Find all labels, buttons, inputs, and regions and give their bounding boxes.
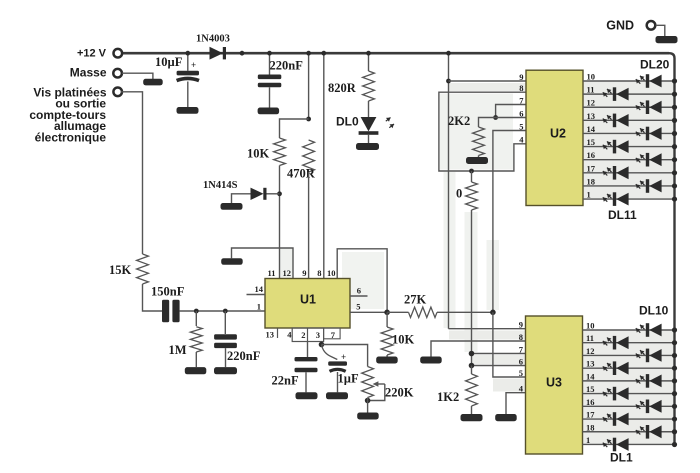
U1 bottom pin boxes [292, 328, 323, 342]
LED row U3 pin 13 [583, 367, 675, 369]
wire node to 1uF [322, 345, 338, 360]
ground Masse [143, 79, 163, 86]
wire U2 pin7 [496, 105, 526, 118]
svg-text:15: 15 [587, 137, 596, 147]
svg-text:10K: 10K [247, 147, 270, 161]
wire 1uF to ground [337, 372, 339, 392]
U1 pin 6 stub [350, 295, 368, 297]
wire GND terminal [656, 25, 665, 36]
node 220nF-2 [223, 309, 228, 314]
wire node to 220K [322, 345, 368, 367]
input terminal [113, 88, 122, 97]
svg-text:15K: 15K [109, 263, 132, 277]
svg-text:14: 14 [587, 124, 596, 134]
wire 220K to ground [367, 398, 369, 413]
svg-text:9: 9 [302, 268, 306, 278]
svg-text:1µF: 1µF [338, 372, 359, 386]
LED DL0 [368, 101, 370, 117]
shading behind U2 LED array [583, 81, 675, 200]
LED row U3 pin 18 [583, 431, 675, 433]
wire U1 pin5 to node [350, 311, 387, 313]
svg-text:16: 16 [587, 150, 596, 160]
LED row U2 pin 15 [583, 146, 675, 148]
svg-text:27K: 27K [404, 293, 427, 307]
ground 10K-2 [376, 357, 398, 364]
svg-text:11: 11 [587, 85, 595, 95]
resistor 470R [303, 140, 315, 172]
node 1M [194, 309, 199, 314]
wire U2 pin6 to 2K2 [479, 118, 527, 128]
wire U2 pin5 down line C [493, 131, 526, 313]
svg-text:5: 5 [519, 121, 523, 131]
op-amp U1 (LM2917) [265, 279, 350, 329]
svg-text:10: 10 [586, 321, 595, 331]
resistor 0 [471, 171, 473, 182]
resistor 27K [387, 311, 408, 313]
wire 1M to ground [195, 352, 197, 367]
svg-text:1: 1 [586, 435, 590, 445]
LED row U2 pin 13 [583, 119, 675, 121]
svg-text:220nF: 220nF [227, 349, 261, 363]
svg-text:470R: 470R [287, 167, 316, 181]
LED row U2 pin 18 [583, 185, 675, 187]
wire 2K2 to ground [478, 156, 480, 158]
svg-text:6: 6 [519, 108, 523, 118]
ground U3 pin4 [495, 414, 517, 421]
U1 pin 13 stub [277, 328, 279, 338]
wire U3 pin7 [472, 353, 526, 355]
svg-text:8: 8 [519, 83, 523, 93]
ground 220nF [258, 108, 280, 115]
right bus wire down to LEDs [669, 53, 675, 445]
svg-text:1N4003: 1N4003 [196, 34, 230, 45]
shading band U2 pins 9-8 [449, 83, 526, 91]
wire 470R to U1 pin9 [308, 172, 310, 279]
capacitor 150nF [162, 300, 169, 322]
wire 10K to diode node [279, 166, 281, 279]
LED row U3 pin 12 [583, 354, 675, 356]
svg-text:5: 5 [519, 368, 523, 378]
wire U3 pin6 [472, 365, 526, 367]
LED row U2 pin 11 [583, 93, 675, 95]
shading behind U3 LED array [583, 330, 675, 445]
op-amp U3 (LM3914) [526, 316, 583, 454]
svg-text:13: 13 [587, 111, 596, 121]
node 27K line C [490, 310, 496, 316]
node line A / U2 pin9 [446, 79, 451, 84]
svg-text:17: 17 [587, 163, 596, 173]
svg-text:12: 12 [587, 98, 596, 108]
shading strip wires above U3 [444, 172, 456, 328]
wire DL0 to ground [368, 135, 370, 143]
wire U1 pin10 loop to 27K node [337, 249, 387, 312]
Masse terminal [113, 69, 122, 78]
+12V terminal [114, 49, 123, 58]
svg-text:6: 6 [357, 286, 361, 296]
node U1 pin5 27K [384, 310, 390, 316]
shading strip wires above U3 b [465, 212, 478, 352]
svg-text:0: 0 [456, 187, 462, 201]
svg-text:18: 18 [587, 176, 596, 186]
wire rail to 220nF [269, 53, 271, 74]
U1 pin 14 stub [247, 294, 266, 296]
LED row U3 pin 1 [583, 443, 675, 445]
LED row U3 pin 11 [583, 342, 675, 344]
wire U3 pin8 to ground [431, 341, 526, 357]
svg-text:9: 9 [519, 320, 523, 330]
GND terminal [647, 21, 656, 30]
wire rail down to node [308, 53, 310, 119]
wire U2 pin8 loop [439, 92, 526, 171]
svg-text:1N414S: 1N414S [203, 180, 238, 191]
LED row U3 pin 17 [583, 418, 675, 420]
resistor 2K2 [473, 127, 485, 156]
wire line C to U3 pin5 [493, 312, 526, 377]
wire pin3 node [321, 342, 323, 345]
ground 2K2 [466, 157, 488, 164]
LED row U2 pin 10 [583, 80, 675, 82]
LED row U2 pin 1 [583, 198, 675, 200]
shading band U3 pins 7-6 [471, 355, 525, 364]
shading band U3 pins 9-8 [449, 331, 525, 340]
potentiometer 220K [362, 367, 374, 398]
wire rail to U1 pin8 [323, 53, 325, 278]
wire 150nF to U1 pin1 [180, 310, 265, 312]
wire 220nF to ground [269, 87, 271, 107]
svg-text:+12 V: +12 V [77, 48, 107, 60]
svg-text:9: 9 [519, 72, 523, 82]
shading strip wires above U3 c [487, 240, 500, 310]
svg-text:13: 13 [266, 330, 275, 340]
svg-text:1: 1 [257, 302, 261, 312]
resistor 1K2 [471, 366, 473, 375]
capacitor 220nF-2 [224, 311, 226, 334]
svg-text:U1: U1 [300, 293, 316, 307]
shading inside U1 pin10 loop [342, 252, 384, 309]
capacitor 22nF [295, 357, 318, 361]
node pin3 [319, 342, 325, 348]
capacitor 1uF [328, 361, 347, 365]
shading band U3 pins 5-4 [493, 379, 525, 392]
svg-text:U3: U3 [546, 376, 562, 390]
svg-text:10: 10 [587, 72, 596, 82]
LED row U3 pin 10 [583, 329, 675, 331]
LED row U3 pin 15 [583, 393, 675, 395]
shading strip U1 pins 11-12 [279, 248, 293, 278]
wire line A to U3 pin9 [449, 328, 526, 330]
svg-text:DL10: DL10 [639, 304, 669, 318]
wire 10uF to ground [187, 82, 189, 108]
wire Masse to ground [122, 73, 153, 79]
svg-text:220nF: 220nF [270, 59, 304, 73]
svg-text:DL11: DL11 [608, 208, 637, 222]
ground 1N4148 [221, 203, 243, 210]
svg-text:Masse: Masse [70, 66, 107, 80]
svg-text:11: 11 [267, 268, 275, 278]
svg-text:14: 14 [255, 284, 264, 294]
ground 220K [357, 413, 379, 420]
wire 1K2 to ground [471, 406, 473, 414]
wire 15K to 150nF [143, 284, 163, 311]
svg-text:14: 14 [586, 371, 595, 381]
node line D pin6 [469, 363, 475, 369]
diode 1N4003 [210, 47, 224, 60]
shading box around 2K2 [440, 94, 513, 170]
ground 1K2 [461, 414, 483, 421]
node line D pin7 [469, 351, 475, 357]
resistor 10K-2 [386, 312, 388, 327]
node diode/10K [277, 191, 282, 196]
wire U1 pin12 to ground [232, 248, 294, 279]
capacitor C 10uF [177, 71, 199, 76]
svg-text:U2: U2 [550, 127, 566, 141]
svg-text:DL20: DL20 [640, 58, 670, 72]
ground pin12 [221, 258, 243, 265]
svg-text:12: 12 [586, 346, 595, 356]
capacitor 220nF [258, 75, 282, 80]
LED row U3 pin 14 [583, 380, 675, 382]
svg-text:5: 5 [356, 302, 360, 312]
svg-text:3: 3 [316, 330, 320, 340]
svg-text:2: 2 [301, 330, 305, 340]
svg-text:16: 16 [586, 397, 595, 407]
node 10K/470R [306, 117, 311, 122]
svg-text:1: 1 [587, 190, 591, 200]
resistor 15K [137, 254, 149, 284]
svg-text:+: + [191, 60, 196, 70]
svg-text:12: 12 [283, 268, 292, 278]
wire 10K-2 to ground [386, 355, 388, 357]
node pins 6-7 [493, 115, 498, 120]
svg-text:1K2: 1K2 [437, 390, 459, 404]
diode 1N4148 [251, 188, 264, 200]
svg-text:11: 11 [586, 333, 594, 343]
svg-text:820R: 820R [328, 81, 357, 95]
wire 27K to line C node [437, 311, 493, 313]
op-amp U2 (LM3914) [526, 70, 583, 205]
wire rail to 10uF [187, 53, 189, 71]
svg-text:15: 15 [586, 384, 595, 394]
svg-text:220K: 220K [385, 386, 414, 400]
svg-text:6: 6 [519, 356, 523, 366]
ground DL0 [356, 143, 379, 150]
svg-text:DL1: DL1 [610, 451, 633, 465]
svg-text:10: 10 [327, 268, 336, 278]
ground 220nF-2 [214, 367, 237, 374]
svg-text:18: 18 [586, 422, 595, 432]
ground GND [656, 36, 678, 43]
wire pin2 to 22nF [307, 342, 309, 358]
wire 0 resistor down line D [471, 210, 473, 366]
ground 10uF [177, 107, 199, 114]
junction rail [240, 51, 245, 56]
wire ground to diode [232, 194, 251, 203]
svg-text:13: 13 [586, 359, 595, 369]
node 0-resistor [469, 169, 474, 174]
svg-text:1M: 1M [169, 343, 187, 357]
svg-text:17: 17 [586, 410, 595, 420]
ground 1M [185, 367, 207, 374]
svg-text:8: 8 [317, 268, 321, 278]
svg-text:2K2: 2K2 [448, 114, 470, 128]
svg-text:8: 8 [519, 332, 523, 342]
wire rail down line A [448, 53, 450, 329]
svg-text:150nF: 150nF [151, 285, 185, 299]
wire node to 10K top [280, 119, 309, 138]
resistor 10K [274, 138, 286, 166]
svg-text:électronique: électronique [35, 131, 107, 145]
220K wiper arrow [368, 384, 385, 401]
wire 220nF-2 to ground [225, 348, 227, 367]
wire 22nF to ground [305, 372, 307, 392]
ground 22nF [296, 392, 318, 399]
svg-text:DL0: DL0 [336, 115, 359, 129]
+12V rail wire [122, 52, 670, 55]
svg-text:+: + [341, 352, 346, 362]
ground U3 pin8 [420, 357, 442, 364]
LED row U3 pin 16 [583, 405, 675, 407]
LED row U2 pin 12 [583, 106, 675, 108]
ground 1uF [326, 392, 348, 399]
wire rail to 820R [368, 53, 370, 71]
LED row U2 pin 16 [583, 159, 675, 161]
LED row U2 pin 14 [583, 132, 675, 134]
resistor 1M [195, 311, 197, 326]
svg-text:GND: GND [606, 19, 634, 33]
wire to U2 pin9 [449, 80, 527, 82]
svg-text:10µF: 10µF [155, 55, 183, 69]
LED row U2 pin 17 [583, 172, 675, 174]
wire U3 pin4 to ground [506, 393, 526, 414]
svg-text:10K: 10K [392, 333, 415, 347]
resistor 820R [363, 71, 375, 101]
svg-text:22nF: 22nF [272, 374, 299, 388]
node 220K bottom [365, 398, 371, 404]
wire input to 15K [121, 92, 143, 254]
